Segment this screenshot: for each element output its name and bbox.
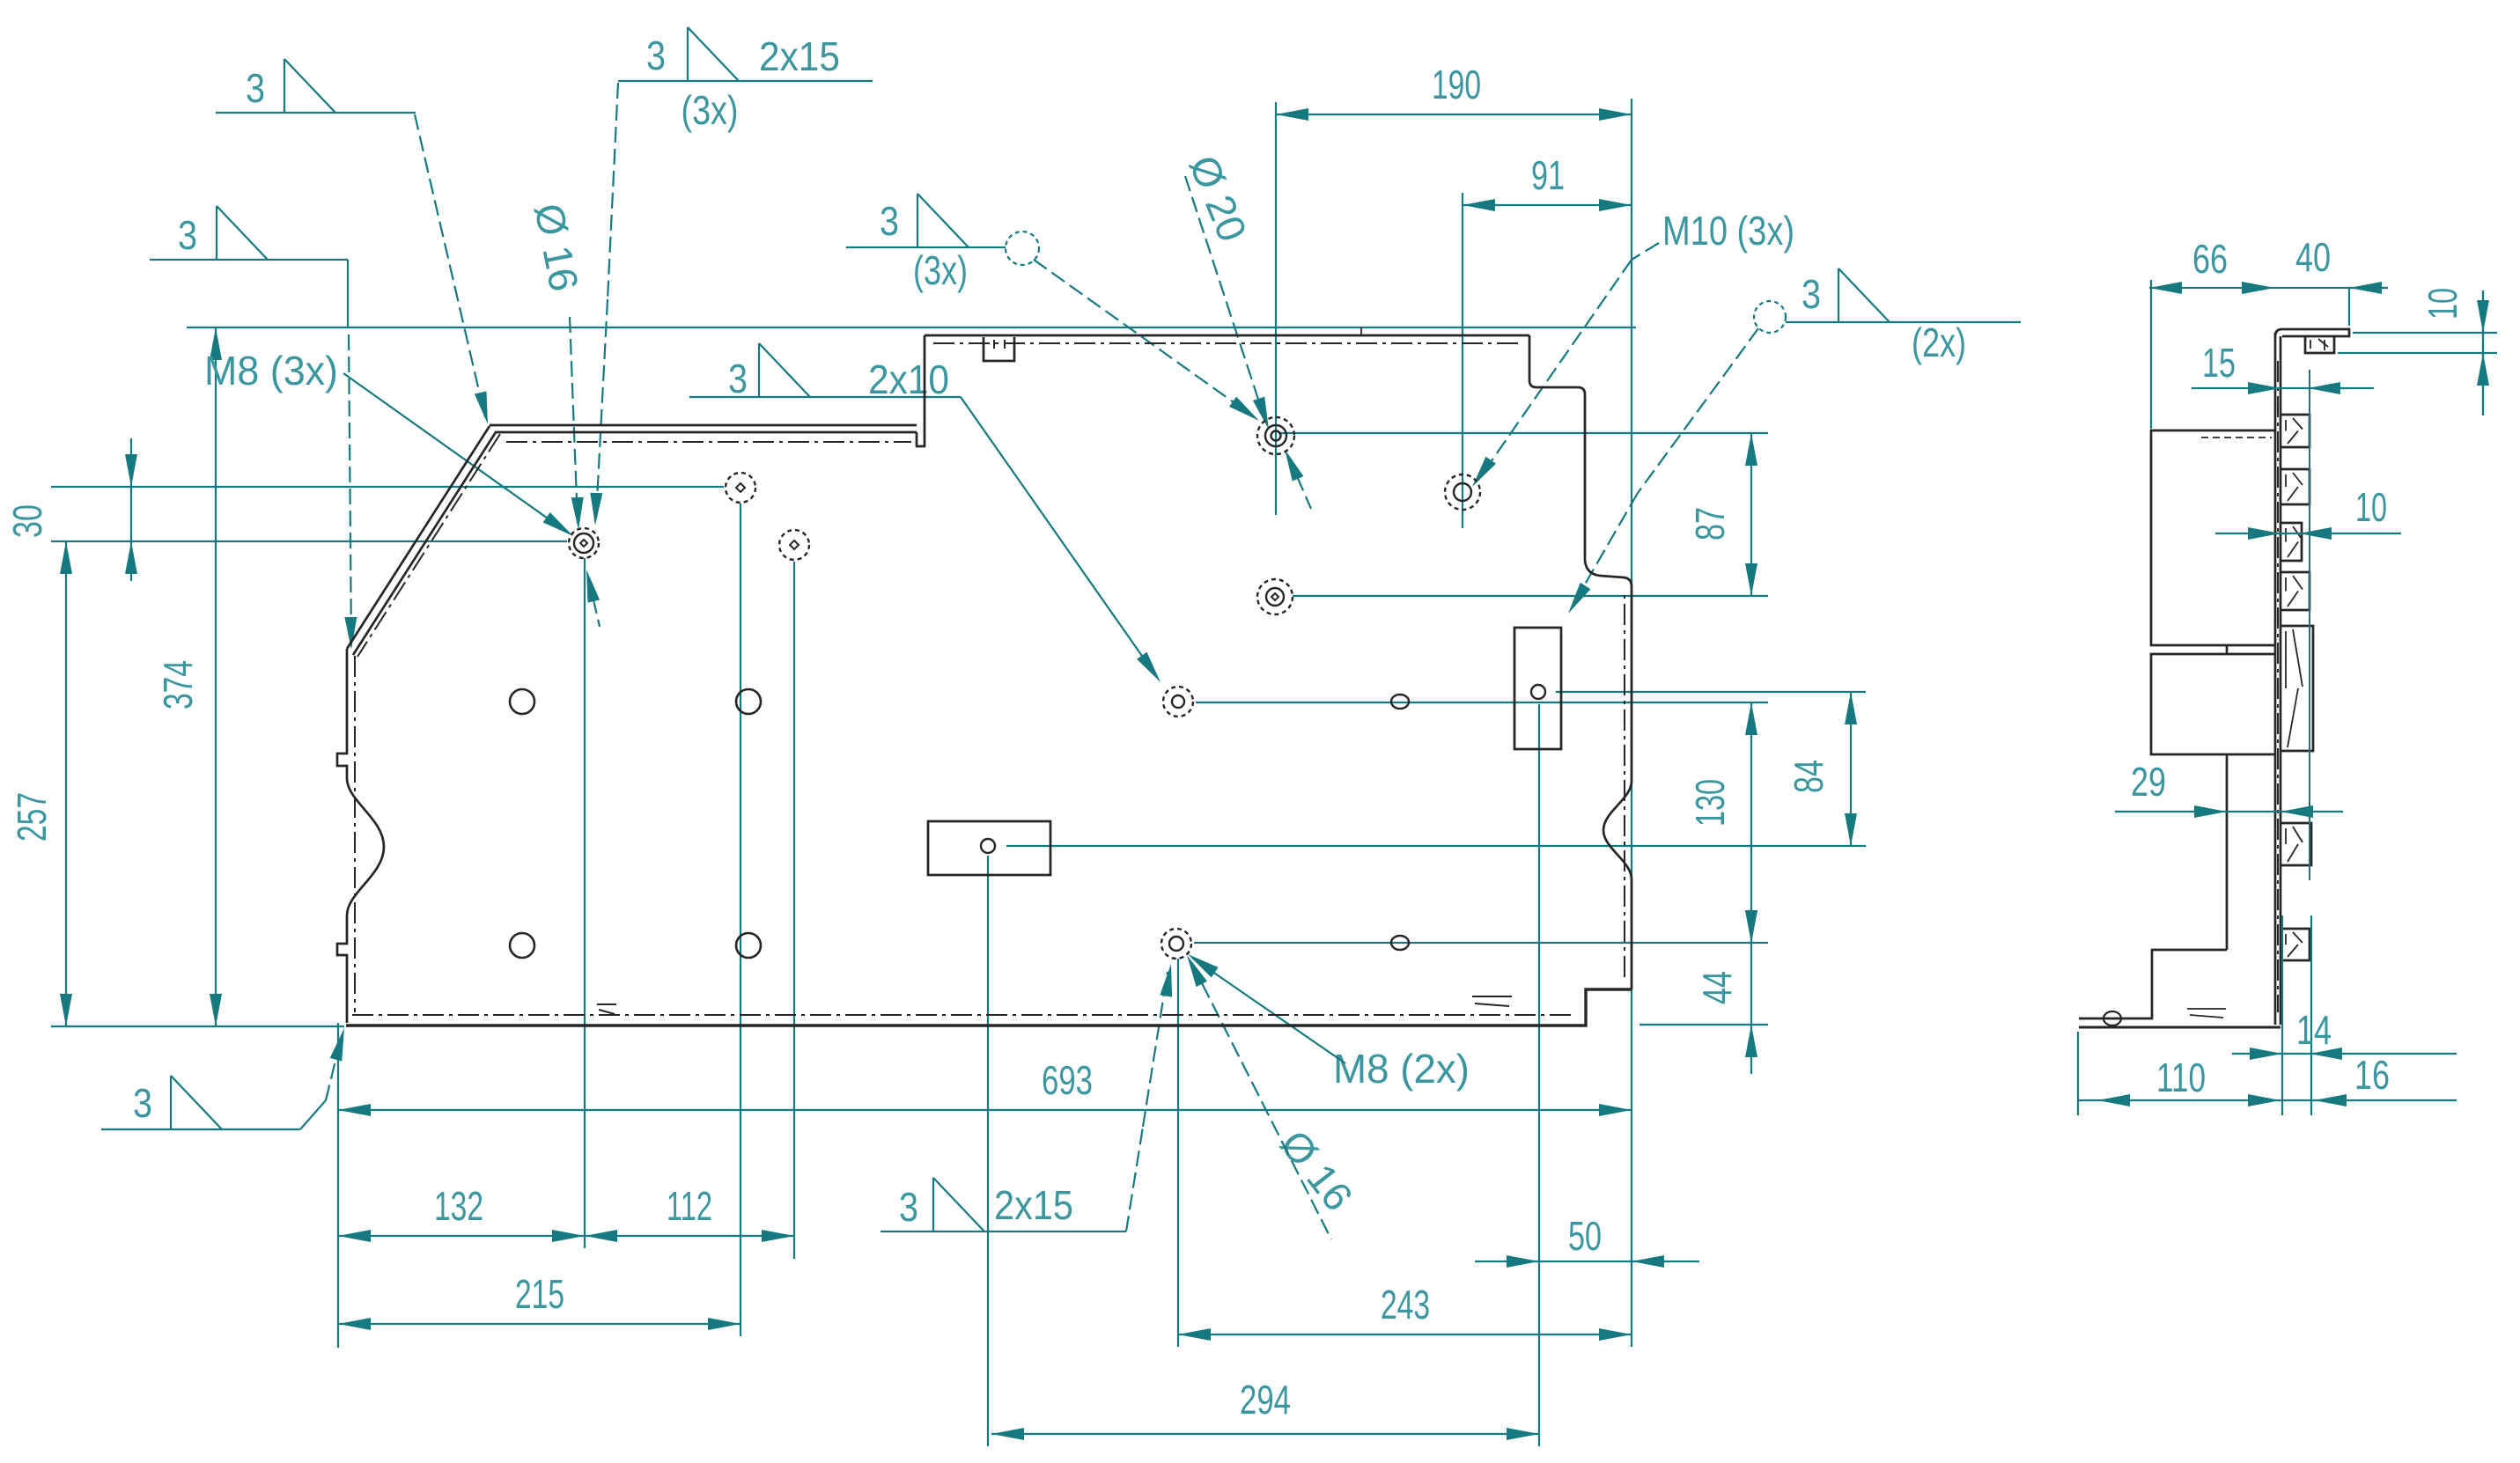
svg-text:374: 374 bbox=[155, 660, 201, 709]
svg-text:132: 132 bbox=[434, 1183, 483, 1229]
svg-text:16: 16 bbox=[2354, 1052, 2390, 1098]
svg-text:10: 10 bbox=[2355, 484, 2387, 530]
svg-text:294: 294 bbox=[1240, 1377, 1291, 1423]
svg-text:(3x): (3x) bbox=[682, 87, 739, 133]
svg-text:15: 15 bbox=[2202, 340, 2236, 386]
svg-text:84: 84 bbox=[1786, 760, 1831, 793]
svg-text:91: 91 bbox=[1531, 152, 1565, 198]
svg-text:2x15: 2x15 bbox=[759, 33, 840, 79]
svg-text:2x15: 2x15 bbox=[994, 1182, 1073, 1228]
svg-text:3: 3 bbox=[899, 1184, 918, 1230]
svg-text:3: 3 bbox=[178, 212, 197, 258]
svg-text:44: 44 bbox=[1694, 971, 1740, 1004]
svg-text:(2x): (2x) bbox=[1912, 320, 1966, 365]
svg-text:30: 30 bbox=[4, 504, 50, 538]
svg-text:257: 257 bbox=[9, 792, 55, 842]
svg-text:14: 14 bbox=[2296, 1007, 2332, 1053]
svg-text:50: 50 bbox=[1568, 1213, 1602, 1259]
svg-text:M8 (2x): M8 (2x) bbox=[1333, 1046, 1470, 1092]
svg-text:3: 3 bbox=[880, 198, 899, 244]
svg-text:10: 10 bbox=[2420, 288, 2465, 320]
svg-text:(3x): (3x) bbox=[913, 247, 968, 293]
svg-text:693: 693 bbox=[1042, 1057, 1093, 1103]
svg-text:29: 29 bbox=[2131, 759, 2166, 805]
svg-text:87: 87 bbox=[1687, 507, 1733, 540]
svg-text:190: 190 bbox=[1432, 62, 1481, 107]
svg-text:3: 3 bbox=[133, 1080, 152, 1126]
svg-text:66: 66 bbox=[2192, 236, 2228, 282]
svg-text:110: 110 bbox=[2156, 1055, 2206, 1100]
svg-text:2x10: 2x10 bbox=[868, 357, 949, 402]
svg-text:3: 3 bbox=[246, 65, 265, 111]
svg-text:243: 243 bbox=[1381, 1282, 1430, 1327]
svg-text:M8 (3x): M8 (3x) bbox=[204, 348, 338, 393]
svg-text:3: 3 bbox=[1802, 271, 1821, 317]
svg-text:112: 112 bbox=[667, 1183, 712, 1229]
svg-text:130: 130 bbox=[1687, 779, 1733, 827]
svg-text:215: 215 bbox=[515, 1271, 564, 1317]
svg-text:M10 (3x): M10 (3x) bbox=[1662, 208, 1794, 254]
svg-text:3: 3 bbox=[646, 33, 666, 78]
svg-text:3: 3 bbox=[728, 356, 748, 401]
svg-text:40: 40 bbox=[2295, 234, 2331, 280]
